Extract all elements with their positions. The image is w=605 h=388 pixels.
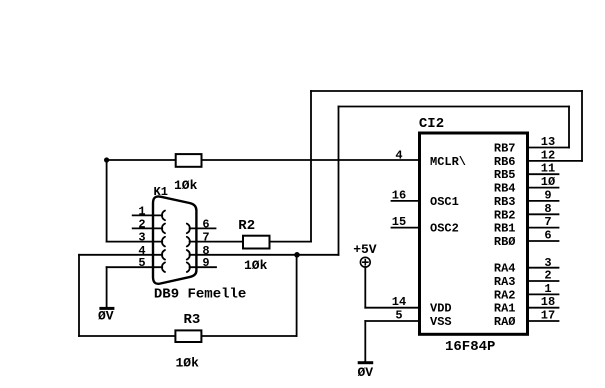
svg-text:RA1: RA1: [494, 302, 516, 316]
svg-text:6: 6: [544, 229, 551, 243]
svg-text:R2: R2: [238, 218, 255, 234]
pin 2 stub RA3: [528, 280, 559, 282]
svg-text:R3: R3: [184, 312, 201, 328]
pin 3 stub RA4: [528, 267, 559, 269]
svg-text:4: 4: [395, 148, 402, 162]
svg-text:2: 2: [544, 269, 551, 283]
svg-text:15: 15: [392, 215, 406, 229]
svg-text:11: 11: [541, 162, 555, 176]
svg-text:1: 1: [544, 282, 551, 296]
contact DB9 pin1: [162, 211, 165, 221]
connector K1 DB9 body: [153, 196, 196, 283]
wire pin13 RB7: [528, 147, 570, 149]
pin 11 stub RB5: [528, 173, 559, 175]
pin 9 stub DB9: [190, 266, 216, 268]
pin 17 stub RA0: [528, 320, 559, 322]
svg-text:16F84P: 16F84P: [445, 339, 495, 355]
wire node A down to DB9 pin3: [106, 160, 108, 242]
contact DB9 pin3: [162, 237, 165, 247]
pin 16 stub OSC1: [392, 200, 420, 202]
pin 15 stub OSC2: [392, 227, 420, 229]
pin 18 stub RA1: [528, 307, 559, 309]
wire VSS pin5: [365, 320, 419, 322]
contact DB9 pin4: [162, 250, 165, 260]
svg-text:RB2: RB2: [494, 208, 516, 222]
svg-text:3: 3: [138, 231, 145, 245]
svg-text:7: 7: [202, 231, 209, 245]
wire VSS down to ground: [364, 321, 366, 361]
wire outer top run: [311, 90, 582, 92]
svg-text:18: 18: [541, 295, 555, 309]
svg-text:17: 17: [541, 309, 555, 323]
svg-text:6: 6: [202, 217, 209, 231]
svg-text:CI2: CI2: [419, 116, 444, 132]
contact DB9 pin8: [187, 250, 190, 260]
svg-text:DB9 Femelle: DB9 Femelle: [154, 287, 246, 303]
svg-text:9: 9: [544, 188, 551, 202]
svg-text:1Øk: 1Øk: [174, 178, 198, 193]
pin 1 stub DB9: [133, 214, 163, 216]
svg-text:ØV: ØV: [358, 365, 374, 380]
IC U1 16F84P box: [420, 133, 528, 334]
ground symbol right 0V: [358, 361, 374, 364]
contact DB9 pin7: [187, 237, 190, 247]
wire R2 net vertical up: [310, 91, 312, 242]
pin 6 stub RB0: [528, 240, 559, 242]
svg-text:RB4: RB4: [494, 182, 516, 196]
svg-text:12: 12: [541, 148, 555, 162]
svg-text:2: 2: [138, 217, 145, 231]
svg-text:MCLR\: MCLR\: [430, 155, 466, 169]
svg-text:1Øk: 1Øk: [244, 258, 268, 273]
junction node A: [104, 157, 109, 162]
wire +5V down to VDD: [364, 267, 366, 308]
wire MCLR net: node A to pin4 of CI2: [107, 159, 420, 161]
wire DB9 pin8 net through node B: [190, 254, 339, 256]
svg-text:5: 5: [138, 256, 145, 270]
wire left vertical down to R3 net: [78, 255, 80, 336]
svg-text:ØV: ØV: [98, 309, 114, 324]
svg-text:RB3: RB3: [494, 195, 516, 209]
svg-text:1Ø: 1Ø: [541, 175, 555, 189]
pin 2 stub DB9: [133, 227, 163, 229]
svg-text:14: 14: [392, 295, 406, 309]
svg-text:+5V: +5V: [353, 242, 377, 257]
svg-text:7: 7: [544, 215, 551, 229]
svg-text:RAØ: RAØ: [494, 315, 516, 329]
svg-text:RA4: RA4: [494, 262, 516, 276]
svg-text:RA3: RA3: [494, 275, 516, 289]
svg-text:RA2: RA2: [494, 288, 516, 302]
resistor R1 10k: [176, 154, 202, 167]
wire down to RB6 pin12: [581, 91, 583, 161]
resistor R3 10k: [175, 330, 201, 342]
wire bottom R3 net: [79, 335, 297, 337]
svg-text:RBØ: RBØ: [494, 235, 516, 249]
contact DB9 pin5: [162, 262, 165, 272]
svg-text:OSC1: OSC1: [430, 195, 459, 209]
contact DB9 pin2: [162, 224, 165, 234]
svg-text:13: 13: [541, 135, 555, 149]
svg-text:K1: K1: [154, 185, 168, 199]
wire down to RB7 pin13: [568, 107, 570, 148]
pin 6 stub DB9: [190, 227, 216, 229]
svg-text:8: 8: [544, 202, 551, 216]
wire pin8 net vertical up: [338, 107, 340, 255]
ground symbol left 0V: [99, 307, 114, 310]
svg-text:1Øk: 1Øk: [176, 356, 200, 371]
svg-text:16: 16: [392, 188, 406, 202]
contact DB9 pin6: [187, 224, 190, 234]
wire to DB9 pin3: [107, 241, 163, 243]
wire inner top run: [339, 106, 570, 108]
svg-text:RB1: RB1: [494, 222, 516, 236]
pin 9 stub RB3: [528, 200, 559, 202]
wire R3 net up to node B: [296, 255, 298, 336]
svg-text:RB7: RB7: [494, 142, 516, 156]
svg-text:1: 1: [138, 204, 145, 218]
wire DB9 pin5 to ground: [107, 266, 163, 268]
svg-text:OSC2: OSC2: [430, 222, 459, 236]
pin 7 stub RB1: [528, 227, 559, 229]
wire VDD pin14: [365, 307, 419, 309]
svg-text:5: 5: [395, 309, 402, 323]
junction node B: [294, 252, 300, 258]
svg-text:9: 9: [202, 256, 209, 270]
svg-text:RB6: RB6: [494, 155, 516, 169]
resistor R2 10k: [243, 236, 270, 249]
pin 10 stub RB4: [528, 187, 559, 189]
wire DB9 pin7 through R2: [190, 241, 311, 243]
pin 8 stub RB2: [528, 213, 559, 215]
wire pin12 RB6: [528, 160, 583, 162]
power +5V symbol: [360, 257, 370, 267]
contact DB9 pin9: [187, 262, 190, 272]
wire down to ground symbol: [106, 267, 108, 307]
svg-text:VSS: VSS: [430, 315, 452, 329]
svg-text:VDD: VDD: [430, 302, 452, 316]
pin 1 stub RA2: [528, 293, 559, 295]
wire DB9 pin4 to left vertical: [79, 254, 162, 256]
svg-text:RB5: RB5: [494, 168, 516, 182]
